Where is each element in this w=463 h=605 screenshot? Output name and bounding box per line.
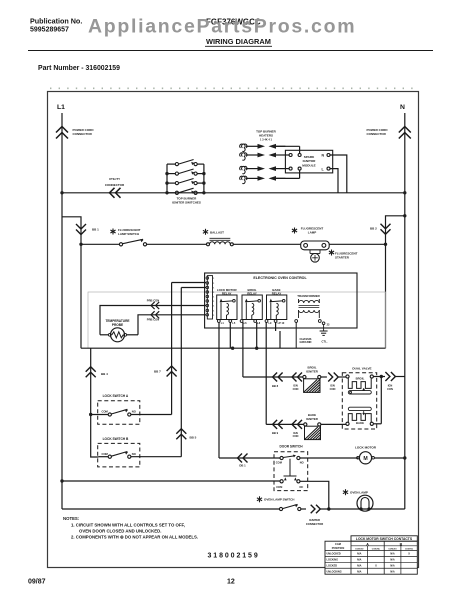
svg-text:NO: NO xyxy=(132,410,136,414)
svg-text:Publication No.: Publication No. xyxy=(30,17,82,26)
svg-text:LOCKING: LOCKING xyxy=(327,559,339,562)
svg-text:COM: COM xyxy=(276,485,282,489)
svg-text:N/A: N/A xyxy=(390,570,395,573)
svg-text:1: 1 xyxy=(213,292,214,294)
svg-text:1: 1 xyxy=(213,315,214,317)
svg-text:B: B xyxy=(400,542,403,546)
svg-text:LAMP: LAMP xyxy=(308,231,317,235)
svg-text:UTILITY: UTILITY xyxy=(109,177,120,181)
svg-text:BALLAST: BALLAST xyxy=(210,231,224,235)
svg-text:1: 1 xyxy=(213,288,214,290)
svg-text:UNLOCKED: UNLOCKED xyxy=(327,553,341,556)
svg-text:TRANSFORMER: TRANSFORMER xyxy=(297,294,320,298)
svg-text:5995289657: 5995289657 xyxy=(30,27,69,34)
svg-text:BB 7: BB 7 xyxy=(154,370,161,374)
svg-text:09/87: 09/87 xyxy=(28,579,46,586)
svg-text:M: M xyxy=(363,456,367,462)
svg-text:NC: NC xyxy=(300,485,304,489)
svg-text:N/A: N/A xyxy=(357,559,362,562)
svg-text:N/A: N/A xyxy=(390,565,395,568)
svg-text:CTL.: CTL. xyxy=(322,340,328,344)
svg-text:CHASSIS: CHASSIS xyxy=(300,337,312,341)
svg-text:PRB CON: PRB CON xyxy=(147,299,159,303)
svg-text:CONNECTOR: CONNECTOR xyxy=(105,183,125,187)
svg-text:LOCK MOTOR: LOCK MOTOR xyxy=(355,446,377,450)
svg-text:BB 2: BB 2 xyxy=(370,227,377,231)
svg-text:LP 10: LP 10 xyxy=(278,322,285,325)
svg-text:LOCK MOTOR SWITCH CONTACTS: LOCK MOTOR SWITCH CONTACTS xyxy=(356,537,413,541)
svg-text:ELECTRONIC OVEN CONTROL: ELECTRONIC OVEN CONTROL xyxy=(253,276,307,280)
svg-text:N/A: N/A xyxy=(357,553,362,556)
svg-text:CONNECTOR: CONNECTOR xyxy=(73,132,93,136)
svg-text:1: 1 xyxy=(213,297,214,299)
svg-text:DOOR SWITCH: DOOR SWITCH xyxy=(279,445,303,449)
svg-text:LOCK SWITCH A: LOCK SWITCH A xyxy=(103,394,129,398)
svg-text:LOCK SWITCH B: LOCK SWITCH B xyxy=(103,437,129,441)
svg-text:IGNITER: IGNITER xyxy=(306,417,319,421)
svg-text:A: A xyxy=(366,542,369,546)
svg-text:DUAL VALVE: DUAL VALVE xyxy=(352,367,371,371)
svg-text:OVEN DOOR CLOSED AND UNLOCKED.: OVEN DOOR CLOSED AND UNLOCKED. xyxy=(79,529,161,534)
svg-text:L1: L1 xyxy=(57,104,65,111)
svg-text:PROBE: PROBE xyxy=(112,323,123,327)
svg-text:OVEN LAMP SWITCH: OVEN LAMP SWITCH xyxy=(264,498,294,502)
svg-text:1. CIRCUIT SHOWN WITH ALL CON: 1. CIRCUIT SHOWN WITH ALL CONTROLS SET T… xyxy=(71,523,185,528)
svg-text:COM: COM xyxy=(102,410,109,414)
svg-text:BROIL: BROIL xyxy=(356,377,365,381)
svg-text:IGNITER SWITCHES: IGNITER SWITCHES xyxy=(172,200,201,204)
svg-text:IGNITER: IGNITER xyxy=(309,518,320,522)
svg-text:12: 12 xyxy=(227,579,235,586)
svg-text:COM: COM xyxy=(276,461,282,465)
svg-text:1: 1 xyxy=(213,311,214,313)
svg-text:BB 5: BB 5 xyxy=(190,436,197,440)
svg-text:N/A: N/A xyxy=(357,570,362,573)
svg-text:WIRING DIAGRAM: WIRING DIAGRAM xyxy=(206,37,271,46)
svg-text:1: 1 xyxy=(213,306,214,308)
svg-text:MODULE: MODULE xyxy=(302,163,315,167)
svg-text:OVEN LAMP: OVEN LAMP xyxy=(350,491,368,495)
svg-text:BAKE: BAKE xyxy=(356,421,364,425)
svg-text:GROUND: GROUND xyxy=(300,340,312,344)
svg-text:BB 1: BB 1 xyxy=(92,228,99,232)
svg-text:N/A: N/A xyxy=(390,553,395,556)
svg-text:UNLOCKING: UNLOCKING xyxy=(327,570,342,573)
svg-text:Part Number - 316002159: Part Number - 316002159 xyxy=(38,65,120,72)
svg-text:318002159: 318002159 xyxy=(208,553,260,560)
svg-text:IGNITER: IGNITER xyxy=(306,369,319,373)
svg-text:NO: NO xyxy=(132,452,136,456)
svg-text:LOCKED: LOCKED xyxy=(327,565,338,568)
svg-text:COM-NO: COM-NO xyxy=(388,548,397,550)
svg-text:HEATERS: HEATERS xyxy=(259,134,273,138)
svg-text:CONNECTOR: CONNECTOR xyxy=(306,522,323,526)
svg-text:CON: CON xyxy=(293,434,299,438)
svg-text:CON: CON xyxy=(293,387,299,391)
svg-text:CAM: CAM xyxy=(335,542,341,546)
svg-text:DB 1: DB 1 xyxy=(239,464,246,468)
svg-text:COM-NO: COM-NO xyxy=(355,548,364,550)
svg-text:N/A: N/A xyxy=(390,559,395,562)
svg-text:BB 8: BB 8 xyxy=(272,384,279,388)
svg-text:COM-NC: COM-NC xyxy=(372,548,381,550)
svg-text:LAMP SWITCH: LAMP SWITCH xyxy=(118,232,139,236)
svg-text:CON: CON xyxy=(330,387,336,391)
svg-text:1 3 4K 4 1: 1 3 4K 4 1 xyxy=(260,138,273,142)
svg-text:POSITION: POSITION xyxy=(332,546,345,550)
svg-text:COM-NC: COM-NC xyxy=(405,548,414,550)
svg-text:AppliancePartsPros.com: AppliancePartsPros.com xyxy=(88,16,356,38)
svg-text:N/A: N/A xyxy=(357,565,362,568)
svg-text:2. COMPONENTS WITH ⊕ DO NOT: 2. COMPONENTS WITH ⊕ DO NOT APPEAR ON AL… xyxy=(71,535,198,540)
svg-text:STARTER: STARTER xyxy=(335,256,350,260)
svg-text:CON: CON xyxy=(387,387,393,391)
svg-text:N: N xyxy=(322,154,325,158)
svg-text:1: 1 xyxy=(213,283,214,285)
svg-text:PRB CON: PRB CON xyxy=(147,318,159,322)
svg-text:1: 1 xyxy=(213,278,214,280)
svg-text:N: N xyxy=(400,104,405,111)
svg-text:BB 9: BB 9 xyxy=(272,431,279,435)
svg-text:CONNECTOR: CONNECTOR xyxy=(367,132,387,136)
svg-text:NO: NO xyxy=(300,461,304,465)
svg-text:BB 4: BB 4 xyxy=(101,372,108,376)
svg-text:NOTES:: NOTES: xyxy=(63,516,80,521)
svg-text:COM: COM xyxy=(102,452,109,456)
svg-text:1: 1 xyxy=(213,301,214,303)
